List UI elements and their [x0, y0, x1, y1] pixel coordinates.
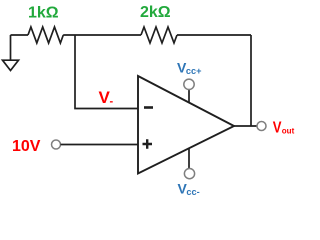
svg-text:V: V — [273, 119, 282, 136]
resistor R1 — [28, 27, 63, 43]
svg-text:cc+: cc+ — [186, 66, 202, 76]
svg-text:-: - — [110, 96, 114, 108]
svg-text:2kΩ: 2kΩ — [140, 4, 171, 21]
svg-text:1kΩ: 1kΩ — [28, 4, 59, 21]
resistor R2 — [141, 27, 177, 43]
wire: non-inverting input — [61, 144, 139, 146]
wire: R1 to R2 through inverting node — [63, 34, 141, 36]
terminal: Vout circle — [257, 122, 266, 131]
wire: feedback top segment — [177, 34, 251, 36]
svg-text:10V: 10V — [12, 138, 41, 155]
wire: output segment — [234, 125, 257, 127]
terminal: 10V source circle — [52, 140, 61, 149]
svg-text:cc-: cc- — [186, 187, 199, 197]
power Vcc+ stem — [188, 90, 190, 103]
op-amp inverting pin marker - — [144, 106, 153, 109]
svg-text:out: out — [282, 127, 295, 136]
terminal Vcc+ circle — [184, 79, 194, 89]
wire: feedback vertical segment to output node — [250, 35, 252, 126]
terminal Vcc- circle — [184, 169, 194, 179]
wire: left input segment to R1 — [11, 34, 29, 36]
wire: inverting node down and to op-amp minus input — [75, 35, 138, 109]
op-amp non-inverting pin marker + — [143, 139, 153, 149]
wire: vertical drop to ground — [10, 35, 12, 60]
power Vcc- stem — [188, 148, 190, 168]
op-amp U1 — [138, 76, 234, 174]
ground — [3, 60, 19, 70]
